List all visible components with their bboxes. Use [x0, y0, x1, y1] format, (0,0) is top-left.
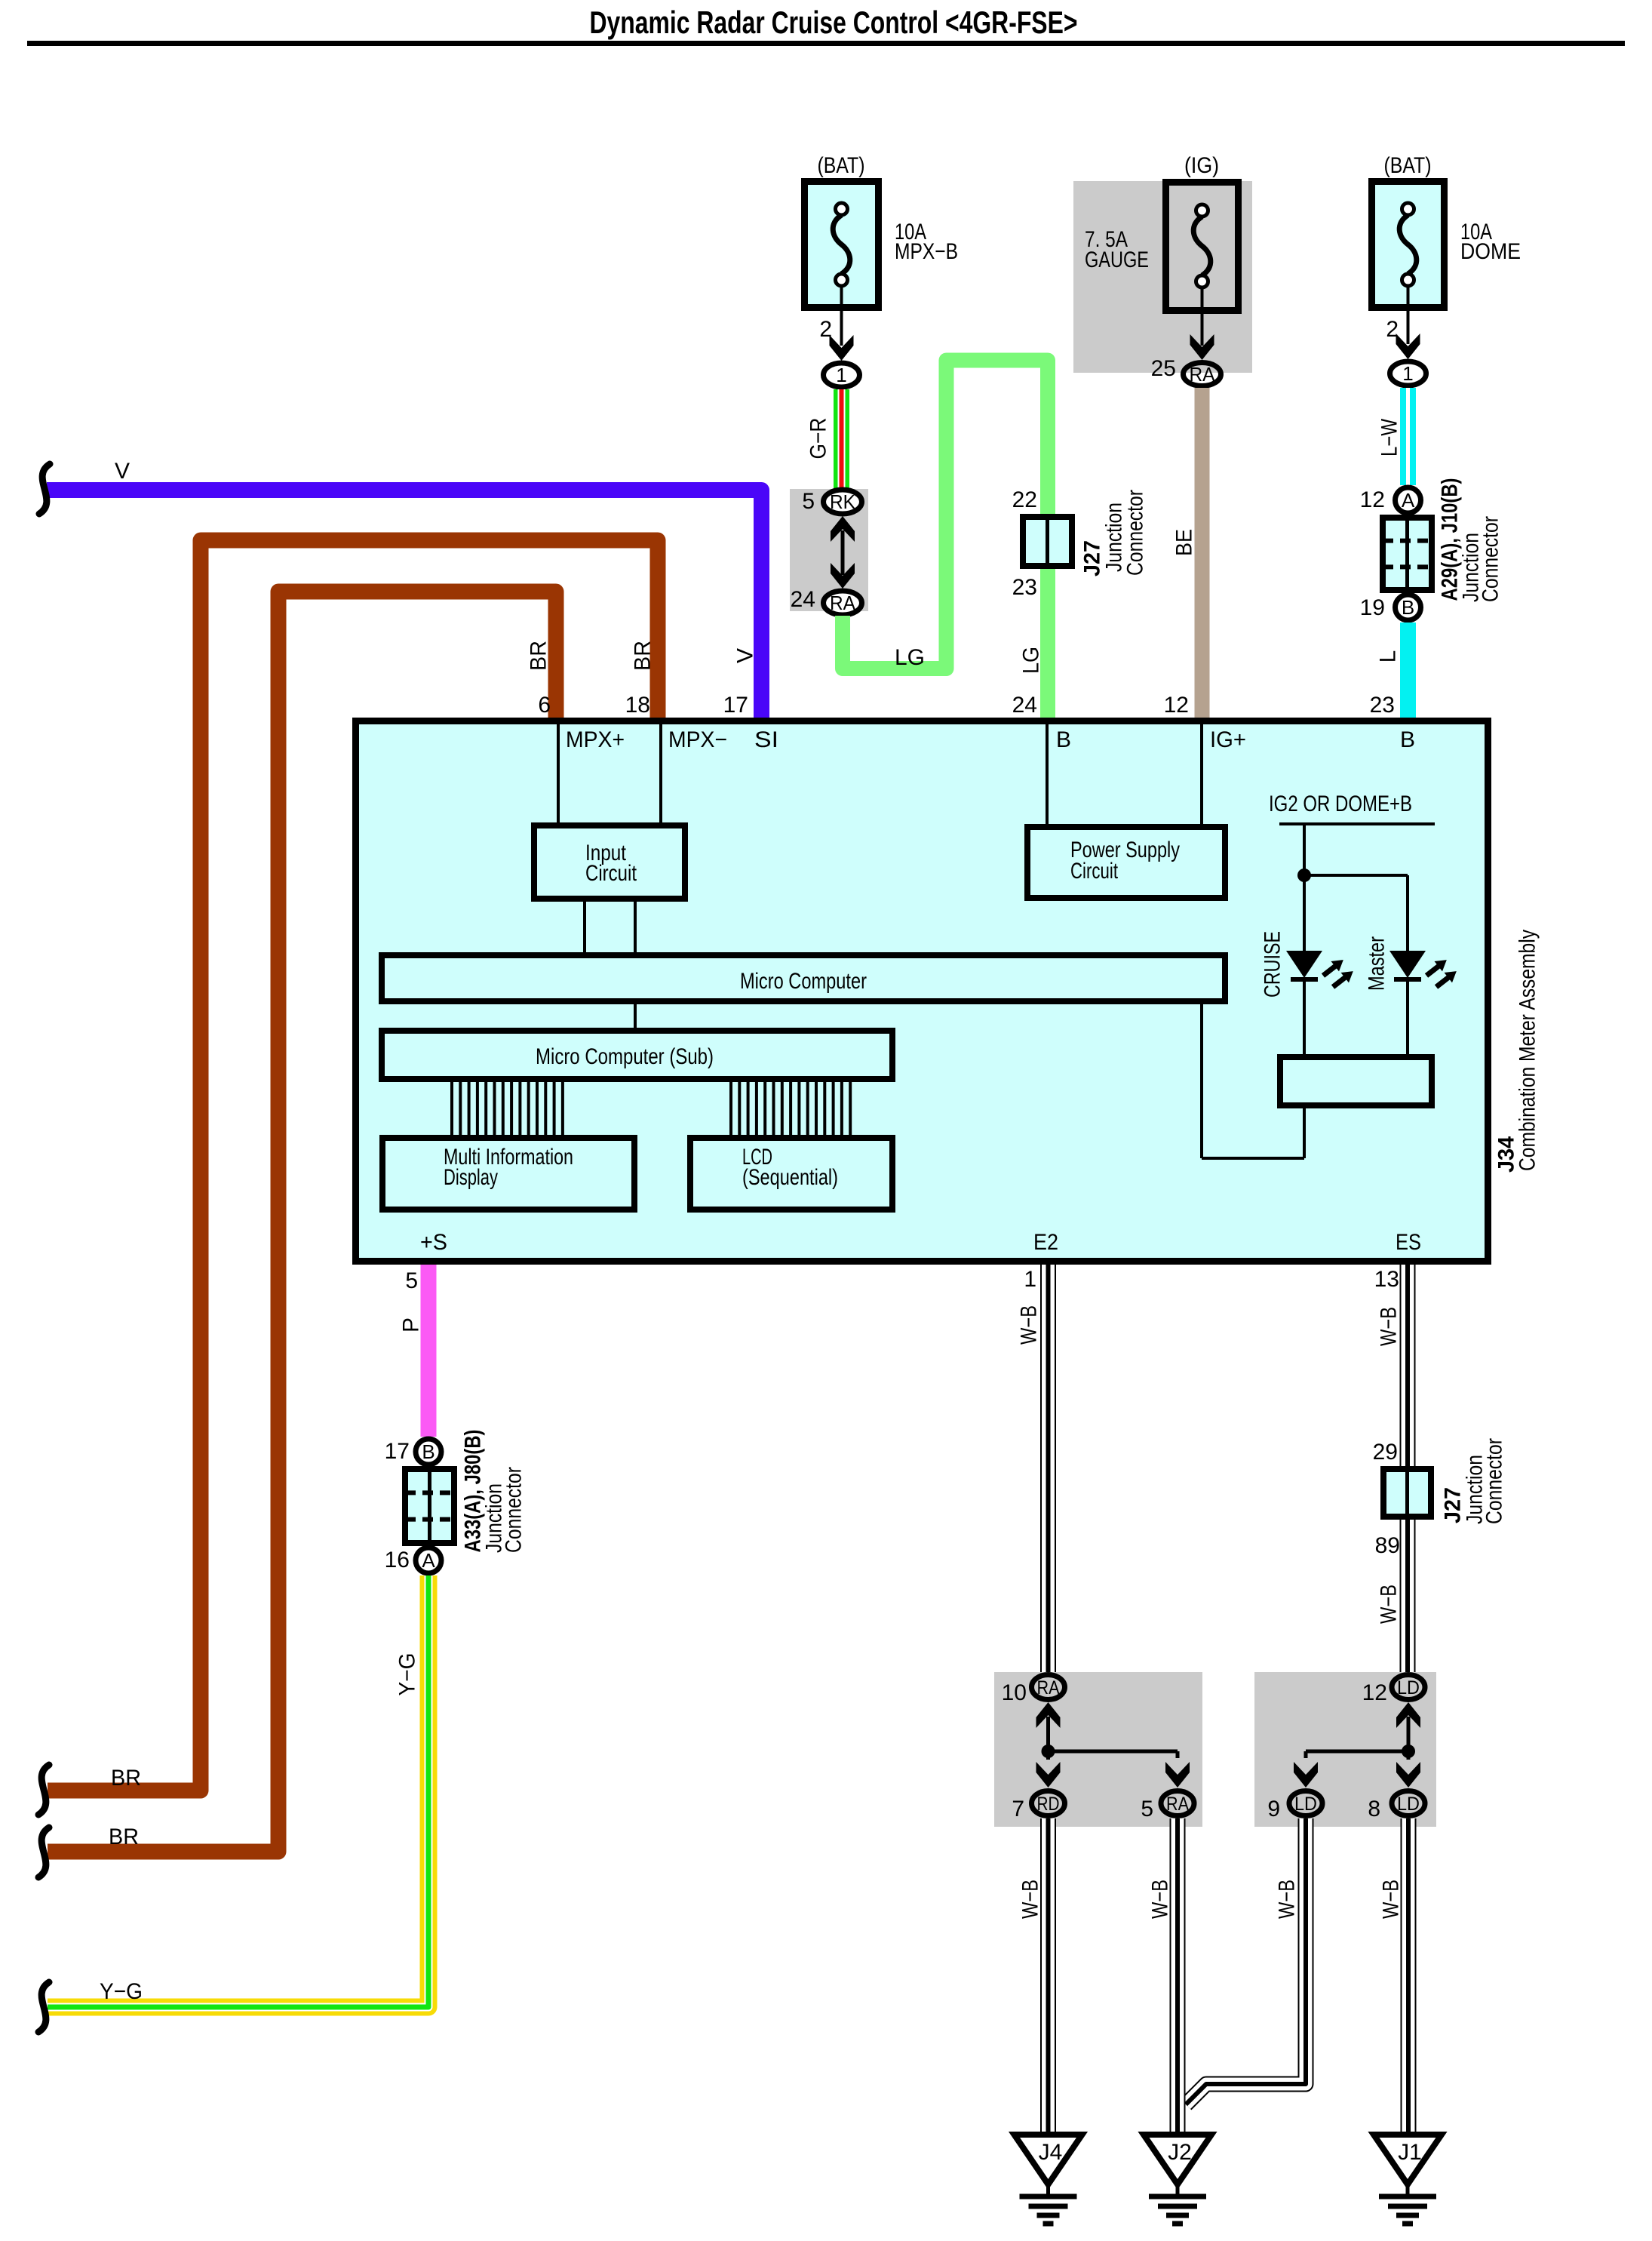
- wire LG label 23: [1012, 575, 1037, 600]
- connector block E2 ground background: [994, 1672, 1202, 1827]
- svg-text:12: 12: [1362, 1680, 1387, 1705]
- svg-text:ES: ES: [1396, 1230, 1421, 1255]
- meter pin 12 number: [1164, 693, 1189, 718]
- svg-text:W−B: W−B: [1377, 1585, 1402, 1624]
- meter J34 labels: [1494, 930, 1540, 1173]
- fuse DOME 10A: [1372, 182, 1445, 308]
- svg-text:12: 12: [1360, 487, 1385, 512]
- svg-text:Connector: Connector: [1123, 490, 1148, 576]
- svg-text:+S: +S: [420, 1230, 447, 1255]
- micro computer box: [382, 955, 1225, 1001]
- svg-text:J4: J4: [1039, 2140, 1063, 2165]
- svg-text:Circuit: Circuit: [1070, 859, 1118, 884]
- connector pin 1 (MPX-B): [824, 363, 860, 387]
- wire BR inner label: [109, 1824, 139, 1849]
- svg-text:V: V: [115, 459, 130, 484]
- svg-text:8: 8: [1368, 1797, 1380, 1821]
- meter internal wires input to micro computer: [585, 902, 635, 952]
- junction connector J27 lower: [1383, 1466, 1431, 1520]
- junction connector A33/J80 labels: [461, 1430, 527, 1554]
- ground J2: [1144, 2135, 1211, 2224]
- wire BE label: [1172, 529, 1197, 556]
- junction connector A33/J80 pin A: [385, 1548, 441, 1573]
- svg-text:A: A: [422, 1549, 435, 1572]
- svg-text:E2: E2: [1033, 1230, 1058, 1255]
- svg-text:Micro Computer (Sub): Micro Computer (Sub): [536, 1044, 714, 1069]
- wire LG from RA to meter pin 24: [843, 361, 1048, 718]
- svg-text:(Sequential): (Sequential): [742, 1165, 838, 1190]
- svg-text:Connector: Connector: [502, 1467, 527, 1553]
- svg-text:13: 13: [1374, 1267, 1399, 1292]
- svg-text:6: 6: [538, 693, 551, 718]
- meter internal wire IG2 node down: [1303, 824, 1306, 951]
- svg-text:G−R: G−R: [806, 418, 831, 460]
- svg-text:IG+: IG+: [1210, 727, 1246, 752]
- svg-text:W−B: W−B: [1377, 1307, 1402, 1346]
- fuse DOME label (BAT): [1384, 153, 1432, 178]
- connector RK pin 5: [802, 489, 861, 514]
- svg-text:10: 10: [1002, 1680, 1027, 1705]
- ground J1: [1374, 2135, 1442, 2224]
- svg-text:B: B: [1402, 596, 1414, 619]
- svg-text:RA: RA: [830, 592, 856, 614]
- wire P pin 5 number: [405, 1268, 418, 1293]
- connector RA pin 24: [791, 587, 862, 615]
- wire V: [47, 490, 762, 718]
- wire fuse MPX-B pin2 to connector: [819, 287, 853, 361]
- wire Y-G cut squiggle: [38, 1982, 49, 2032]
- svg-text:LG: LG: [1019, 647, 1044, 674]
- svg-text:IG2 OR DOME+B: IG2 OR DOME+B: [1269, 792, 1412, 816]
- wire L-W label: [1377, 418, 1402, 456]
- indicator LED CRUISE: [1286, 951, 1353, 987]
- svg-text:9: 9: [1267, 1797, 1280, 1821]
- title rule: [27, 41, 1625, 46]
- bus lines sub to LCD: [731, 1082, 850, 1135]
- svg-text:SI: SI: [754, 727, 778, 752]
- svg-text:MPX+: MPX+: [566, 727, 625, 752]
- multi information display box: [382, 1138, 634, 1210]
- wire Y-G rotated label: [395, 1653, 420, 1696]
- svg-text:18: 18: [625, 693, 650, 718]
- junction connector A29(A) J10(B): [1383, 515, 1432, 593]
- wire W-B from E2: [1040, 1265, 1056, 1672]
- svg-text:B: B: [1056, 727, 1071, 752]
- connector block ES ground background: [1254, 1672, 1436, 1827]
- wire W-B from ES: [1400, 1265, 1416, 1672]
- connector arrows and junction ES: [1294, 1702, 1420, 1788]
- connector LD pin 8: [1368, 1791, 1425, 1822]
- junction connector A29/J10 pin B: [1360, 595, 1421, 620]
- svg-text:W−B: W−B: [1017, 1305, 1042, 1345]
- wire BR outer cut squiggle: [38, 1765, 49, 1815]
- svg-text:5: 5: [405, 1268, 418, 1293]
- input circuit box: [534, 825, 685, 899]
- svg-text:GAUGE: GAUGE: [1085, 247, 1149, 272]
- wire W-B RA5 to ground J2: [1170, 1818, 1186, 2135]
- svg-text:W−B: W−B: [1379, 1880, 1404, 1919]
- wire W-B RD7 to ground J4: [1040, 1818, 1056, 2135]
- wire LG rotated label: [1019, 647, 1044, 674]
- svg-text:23: 23: [1370, 693, 1395, 718]
- svg-text:J2: J2: [1168, 2140, 1192, 2165]
- bus lines sub to multi information display: [452, 1082, 563, 1135]
- svg-text:1: 1: [1402, 362, 1413, 385]
- svg-text:Y−G: Y−G: [395, 1653, 420, 1696]
- svg-text:5: 5: [802, 489, 815, 514]
- svg-text:Combination Meter Assembly: Combination Meter Assembly: [1515, 930, 1540, 1171]
- fuse GAUGE background: [1073, 181, 1252, 373]
- meter internal wires LED cathodes to driver box: [1304, 979, 1408, 1054]
- connector LD pin 9: [1267, 1791, 1322, 1822]
- svg-text:RA: RA: [1166, 1794, 1189, 1815]
- indicator LED Master: [1389, 951, 1457, 987]
- label CRUISE: [1260, 931, 1285, 998]
- wire V rotated label: [733, 648, 758, 663]
- connector RA pin 10: [1002, 1675, 1065, 1706]
- svg-text:7: 7: [1012, 1797, 1024, 1821]
- ground J4: [1015, 2135, 1082, 2224]
- combination meter assembly J34 box: [356, 721, 1488, 1262]
- wire V label: [115, 459, 130, 484]
- svg-text:Dynamic Radar Cruise Control <: Dynamic Radar Cruise Control <4GR-FSE>: [590, 5, 1078, 40]
- meter pin 23 number: [1370, 693, 1395, 718]
- wire P: [421, 1265, 437, 1437]
- svg-text:Connector: Connector: [1479, 516, 1503, 602]
- fuse MPX-B label (BAT): [818, 153, 865, 178]
- junction connector J27 upper labels: [1080, 490, 1148, 576]
- svg-text:W−B: W−B: [1148, 1880, 1173, 1919]
- svg-text:17: 17: [723, 693, 748, 718]
- svg-text:Micro Computer: Micro Computer: [740, 969, 867, 994]
- wire P label: [399, 1317, 424, 1333]
- connector pin 1 (DOME): [1390, 361, 1426, 386]
- meter internal wire driver to micro computer: [1202, 1004, 1304, 1158]
- svg-text:Display: Display: [444, 1165, 498, 1190]
- svg-text:W−B: W−B: [1018, 1880, 1043, 1919]
- meter pin labels top: [566, 727, 1415, 752]
- svg-text:1: 1: [1024, 1267, 1036, 1292]
- fuse MPX-B value label: [895, 220, 958, 264]
- wire BR outer label: [111, 1766, 141, 1791]
- svg-text:B: B: [422, 1440, 434, 1463]
- wire fuse DOME pin2 to connector: [1386, 287, 1420, 359]
- connector RD pin 7: [1012, 1791, 1064, 1822]
- svg-text:BR: BR: [111, 1766, 141, 1791]
- meter internal wire to master branch: [1304, 875, 1408, 951]
- svg-text:LD: LD: [1294, 1794, 1317, 1815]
- wire W-B LD8 to ground J1: [1401, 1818, 1417, 2135]
- meter pin 6 number: [538, 693, 551, 718]
- power supply circuit box: [1027, 827, 1225, 898]
- fuse GAUGE label (IG): [1184, 153, 1219, 178]
- junction connector J27 upper: [1023, 514, 1072, 569]
- svg-text:BE: BE: [1172, 529, 1197, 556]
- svg-text:24: 24: [791, 587, 815, 612]
- meter pin 17 number: [723, 693, 748, 718]
- svg-text:RA: RA: [1037, 1677, 1060, 1698]
- meter internal wire pin IG+ to power supply: [1200, 721, 1203, 824]
- svg-text:Master: Master: [1365, 936, 1389, 991]
- meter pin 24 number: [1012, 693, 1037, 718]
- wire BR inner cut squiggle: [38, 1828, 49, 1877]
- svg-text:BR: BR: [527, 641, 551, 671]
- fuse DOME value label: [1460, 220, 1521, 264]
- svg-text:J1: J1: [1398, 2140, 1422, 2165]
- wire Y-G label horizontal: [100, 1979, 143, 2004]
- svg-text:(IG): (IG): [1184, 153, 1219, 178]
- meter pin 18 number: [625, 693, 650, 718]
- junction connector J27 lower pin 29: [1373, 1440, 1398, 1465]
- wire BR outer rotated label: [631, 641, 656, 671]
- connector RA pin 5: [1141, 1791, 1194, 1822]
- svg-text:(BAT): (BAT): [818, 153, 865, 178]
- meter internal wire pin B to power supply: [1046, 721, 1049, 824]
- wire W-B labels above grounds: [1018, 1880, 1404, 1919]
- svg-text:BR: BR: [631, 641, 656, 671]
- wire BR inner: [48, 592, 556, 1852]
- fuse GAUGE value label: [1085, 227, 1149, 272]
- svg-text:19: 19: [1360, 595, 1385, 620]
- svg-text:29: 29: [1373, 1440, 1398, 1465]
- svg-text:MPX−: MPX−: [668, 727, 727, 752]
- wire G-R: [834, 389, 849, 490]
- micro computer sub box: [382, 1031, 892, 1079]
- svg-text:A: A: [1402, 489, 1415, 512]
- svg-text:CRUISE: CRUISE: [1260, 931, 1285, 998]
- svg-text:Connector: Connector: [1482, 1438, 1507, 1524]
- svg-text:Y−G: Y−G: [100, 1979, 143, 2004]
- svg-text:MPX−B: MPX−B: [895, 239, 958, 264]
- svg-text:BR: BR: [109, 1824, 139, 1849]
- wire BR inner rotated label: [527, 641, 551, 671]
- wire W-B LD9 joining J2 wire: [1186, 1818, 1306, 2104]
- wire L: [1400, 622, 1416, 718]
- wire W-B ES labels: [1374, 1267, 1402, 1346]
- svg-text:RK: RK: [830, 490, 856, 513]
- connector arrows and junction E2: [1036, 1702, 1190, 1788]
- fuse GAUGE 7.5A: [1166, 183, 1239, 311]
- svg-text:(BAT): (BAT): [1384, 153, 1432, 178]
- svg-text:V: V: [733, 648, 758, 663]
- junction connector J27 lower labels: [1441, 1438, 1507, 1524]
- connector block RK/RA background: [790, 489, 868, 611]
- svg-text:89: 89: [1375, 1533, 1400, 1558]
- svg-text:24: 24: [1012, 693, 1037, 718]
- junction connector A33/J80 pin B: [385, 1439, 441, 1465]
- wire G-R label: [806, 418, 831, 460]
- svg-text:23: 23: [1012, 575, 1037, 600]
- wire L-W: [1400, 388, 1416, 485]
- svg-text:W−B: W−B: [1275, 1880, 1300, 1919]
- wire fuse GAUGE to connector RA: [1190, 288, 1214, 360]
- svg-text:LD: LD: [1397, 1677, 1420, 1698]
- junction connector A29/J10 pin A: [1360, 487, 1421, 513]
- wire Y-G: [48, 1575, 428, 2007]
- wire LG label horizontal: [895, 645, 925, 670]
- LCD sequential box: [690, 1138, 892, 1210]
- wire BR outer: [48, 540, 658, 1791]
- svg-text:17: 17: [385, 1439, 410, 1464]
- svg-text:DOME: DOME: [1460, 239, 1521, 264]
- svg-text:25: 25: [1151, 356, 1176, 381]
- junction connector J27 lower pin 89: [1375, 1533, 1400, 1558]
- svg-text:L: L: [1376, 650, 1401, 663]
- svg-text:22: 22: [1012, 487, 1037, 512]
- svg-text:P: P: [399, 1317, 424, 1333]
- connector RA pin 25: [1151, 356, 1221, 386]
- wire L label: [1376, 650, 1401, 663]
- connector LD pin 12: [1362, 1675, 1425, 1706]
- meter internal wire MPX+ to input circuit: [557, 721, 560, 822]
- svg-text:LD: LD: [1397, 1794, 1420, 1815]
- wire LG label 22: [1012, 487, 1037, 512]
- svg-text:L−W: L−W: [1377, 418, 1402, 456]
- connector mating arrows RK-RA: [831, 516, 855, 589]
- svg-text:Circuit: Circuit: [585, 861, 637, 886]
- svg-text:12: 12: [1164, 693, 1189, 718]
- meter internal wire MPX- to input circuit: [659, 721, 662, 822]
- wire BE: [1195, 388, 1210, 718]
- fuse MPX-B 10A: [805, 182, 879, 308]
- svg-text:B: B: [1400, 727, 1415, 752]
- meter pin labels bottom: [420, 1230, 1421, 1255]
- wire W-B E2 labels: [1017, 1267, 1042, 1345]
- junction dot: [1297, 868, 1311, 882]
- svg-text:RA: RA: [1190, 363, 1216, 386]
- svg-text:RD: RD: [1037, 1794, 1060, 1815]
- svg-text:5: 5: [1141, 1797, 1153, 1821]
- label Master: [1365, 936, 1389, 991]
- junction connector A33(A) J80(B): [405, 1466, 454, 1546]
- svg-text:16: 16: [385, 1548, 410, 1572]
- junction connector A29/J10 labels: [1438, 478, 1503, 603]
- svg-text:1: 1: [836, 364, 846, 386]
- wire W-B below J27 label: [1377, 1585, 1402, 1624]
- title Dynamic Radar Cruise Control: [590, 5, 1078, 40]
- lamp driver box: [1280, 1057, 1432, 1105]
- meter internal wire micro computer to sub: [634, 1004, 637, 1028]
- svg-text:LG: LG: [895, 645, 925, 670]
- node IG2 OR DOME+B: [1269, 792, 1435, 824]
- wire V cut squiggle: [39, 464, 50, 514]
